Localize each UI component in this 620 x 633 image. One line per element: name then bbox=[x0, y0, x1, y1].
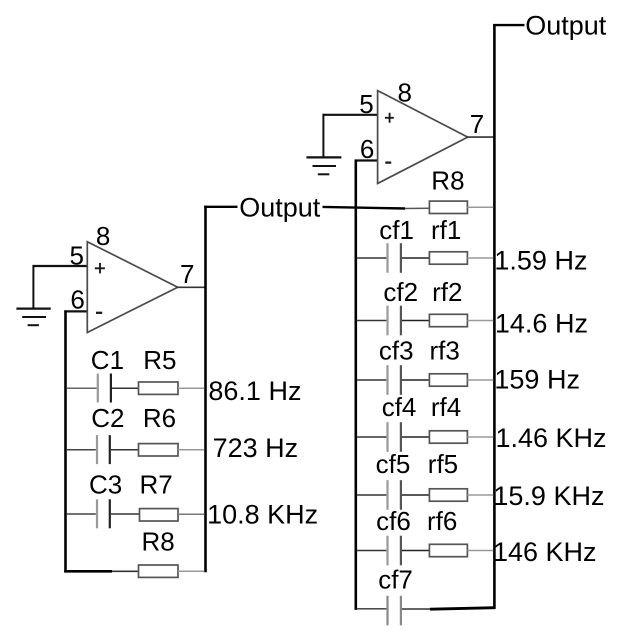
wire output to R8 right bbox=[405, 207, 430, 209]
minus sign U2 bbox=[385, 161, 391, 163]
capacitor cf5 bbox=[357, 480, 429, 510]
resistor rf5 bbox=[429, 489, 493, 501]
svg-text:Output: Output bbox=[525, 11, 607, 41]
svg-text:6: 6 bbox=[360, 134, 374, 164]
resistor R8 (left stage) bbox=[139, 565, 205, 577]
wire pin6 right op-amp bbox=[355, 159, 379, 161]
wire ground riser left bbox=[32, 265, 34, 309]
svg-text:R5: R5 bbox=[143, 345, 176, 375]
wire right rail right stage bbox=[493, 24, 496, 609]
svg-text:cf7: cf7 bbox=[378, 565, 413, 595]
wire left rail left stage bbox=[64, 310, 67, 572]
svg-text:159 Hz: 159 Hz bbox=[494, 364, 580, 394]
resistor R8 (right stage) bbox=[429, 201, 493, 213]
svg-text:rf6: rf6 bbox=[427, 506, 457, 536]
svg-text:rf4: rf4 bbox=[431, 392, 461, 422]
wire bottom row right stage bbox=[357, 608, 386, 610]
minus sign U1 bbox=[96, 312, 102, 314]
plus sign U2 bbox=[385, 113, 394, 123]
wire pin5 left op-amp bbox=[33, 265, 87, 267]
svg-text:15.9 KHz: 15.9 KHz bbox=[493, 481, 604, 511]
wire ground riser right bbox=[322, 114, 324, 158]
capacitor C2 bbox=[67, 435, 139, 464]
ground left bbox=[16, 309, 50, 326]
svg-text:cf6: cf6 bbox=[376, 506, 411, 536]
svg-text:cf5: cf5 bbox=[376, 449, 411, 479]
wire bottom row left stage bbox=[64, 570, 112, 573]
resistor R7 bbox=[140, 509, 205, 521]
capacitor C1 bbox=[67, 374, 139, 403]
svg-text:rf3: rf3 bbox=[430, 336, 460, 366]
svg-text:cf4: cf4 bbox=[382, 392, 417, 422]
svg-text:cf1: cf1 bbox=[379, 215, 414, 245]
svg-text:5: 5 bbox=[359, 89, 373, 119]
svg-text:1.46 KHz: 1.46 KHz bbox=[496, 423, 607, 453]
svg-text:rf1: rf1 bbox=[431, 215, 461, 245]
svg-text:C3: C3 bbox=[89, 469, 122, 499]
capacitor cf3 bbox=[357, 365, 429, 395]
svg-text:6: 6 bbox=[70, 284, 84, 314]
resistor rf2 bbox=[429, 314, 493, 326]
capacitor cf1 bbox=[357, 243, 429, 273]
resistor R6 bbox=[139, 444, 205, 456]
svg-text:Output: Output bbox=[239, 192, 321, 222]
wire bottom to R8 left bbox=[112, 570, 139, 572]
svg-text:R8: R8 bbox=[431, 166, 464, 196]
resistor R5 bbox=[139, 382, 205, 394]
wire pin7 left op-amp bbox=[177, 286, 205, 288]
svg-text:14.6 Hz: 14.6 Hz bbox=[495, 309, 588, 339]
svg-text:7: 7 bbox=[180, 259, 194, 289]
capacitor cf4 bbox=[357, 422, 429, 452]
svg-text:5: 5 bbox=[70, 240, 84, 270]
capacitor cf2 bbox=[357, 306, 429, 336]
svg-text:8: 8 bbox=[398, 78, 412, 108]
wire bottom corner right stage bbox=[430, 608, 496, 610]
svg-text:8: 8 bbox=[96, 221, 110, 251]
resistor rf1 bbox=[429, 252, 493, 264]
wire pin7 right op-amp bbox=[467, 136, 495, 138]
svg-text:R7: R7 bbox=[140, 469, 173, 499]
svg-text:86.1 Hz: 86.1 Hz bbox=[208, 376, 301, 406]
svg-text:rf5: rf5 bbox=[428, 449, 458, 479]
svg-text:1.59 Hz: 1.59 Hz bbox=[494, 246, 587, 276]
svg-text:10.8 KHz: 10.8 KHz bbox=[207, 500, 318, 530]
resistor rf4 bbox=[429, 431, 493, 443]
svg-text:C2: C2 bbox=[91, 403, 124, 433]
svg-text:cf2: cf2 bbox=[383, 277, 418, 307]
wire pin5 right op-amp bbox=[323, 114, 378, 116]
ground right bbox=[306, 157, 341, 174]
capacitor cf7 bbox=[388, 596, 432, 626]
svg-text:R6: R6 bbox=[143, 403, 176, 433]
wire output corner left stage bbox=[204, 206, 237, 208]
wire left rail right stage bbox=[354, 160, 357, 610]
capacitor cf6 bbox=[357, 536, 429, 566]
svg-text:C1: C1 bbox=[91, 345, 124, 375]
wire right rail left stage bbox=[204, 206, 207, 573]
resistor rf6 bbox=[429, 544, 493, 556]
svg-text:cf3: cf3 bbox=[379, 336, 414, 366]
wire output to right stage bbox=[323, 207, 406, 209]
wire output corner right stage bbox=[493, 24, 524, 26]
capacitor C3 bbox=[67, 499, 140, 528]
resistor rf3 bbox=[429, 374, 493, 386]
wire pin6 left op-amp bbox=[64, 310, 88, 312]
svg-text:R8: R8 bbox=[142, 527, 175, 557]
svg-text:7: 7 bbox=[470, 109, 484, 139]
op-amp U1 bbox=[87, 242, 177, 333]
op-amp U2 bbox=[378, 91, 468, 184]
plus sign U1 bbox=[95, 263, 105, 274]
svg-text:rf2: rf2 bbox=[432, 277, 462, 307]
svg-text:723 Hz: 723 Hz bbox=[213, 433, 299, 463]
svg-text:146 KHz: 146 KHz bbox=[493, 537, 597, 567]
